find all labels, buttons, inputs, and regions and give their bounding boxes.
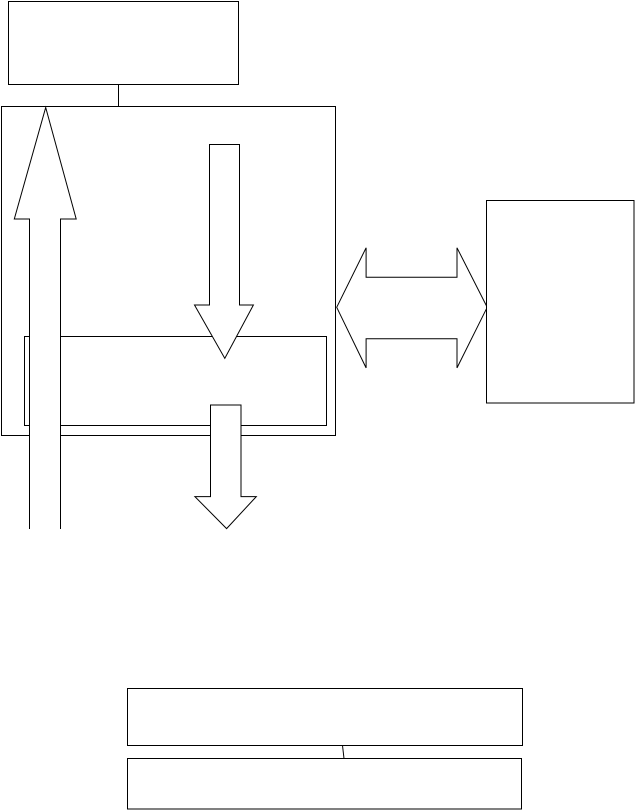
down block arrow leaving main box [195,405,256,529]
wire connector between bottom boxes [343,746,345,759]
main outer box [2,107,336,436]
top box [9,2,239,85]
down block arrow inside main box [195,145,254,359]
double-headed block arrow [337,248,488,368]
bottom box 1 [128,689,523,746]
right box [487,201,635,404]
wire connector from top box to main box [118,85,120,107]
inner box [25,337,327,426]
up block arrow [14,108,76,530]
bottom box 2 [128,759,522,810]
